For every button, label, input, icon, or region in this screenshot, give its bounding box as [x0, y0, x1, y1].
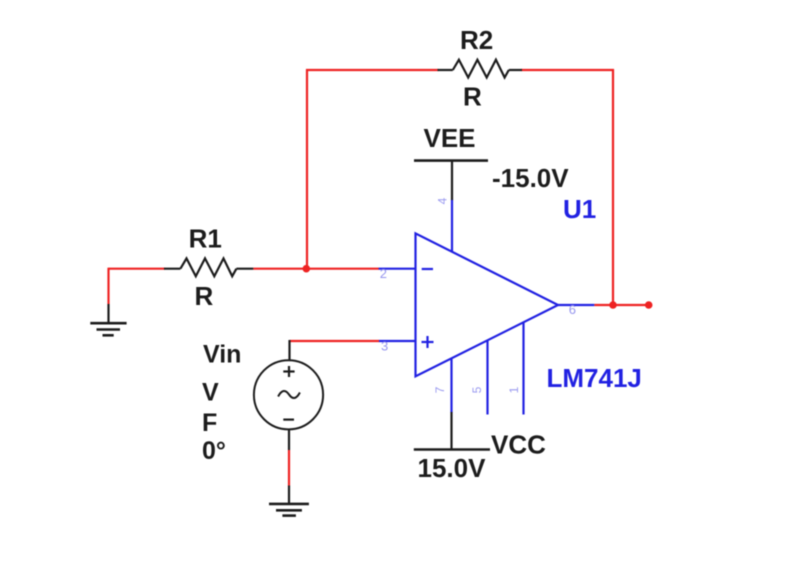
- wire Vin top stem black: [288, 340, 290, 361]
- svg-text:-15.0V: -15.0V: [492, 163, 569, 193]
- wire feedback left vertical: [306, 69, 308, 269]
- wire output red: [594, 304, 648, 306]
- svg-text:V: V: [202, 379, 219, 407]
- svg-text:7: 7: [433, 386, 447, 393]
- node junction dot at output/feedback: [609, 301, 617, 309]
- VEE stem wire: [451, 161, 453, 200]
- svg-text:15.0V: 15.0V: [418, 453, 487, 483]
- op-amp plus input marker: [422, 336, 434, 348]
- ground (below Vin): [269, 504, 309, 516]
- source minus marker: [283, 419, 294, 421]
- svg-text:0°: 0°: [202, 437, 226, 465]
- wire pin3 red from Vin: [290, 340, 380, 342]
- resistor R2: [438, 60, 523, 78]
- wire Vin bottom red: [288, 450, 290, 486]
- svg-text:4: 4: [436, 197, 450, 204]
- pin 4 wire: [451, 200, 453, 253]
- pin 3 stub: [379, 340, 416, 342]
- svg-text:R: R: [463, 82, 482, 112]
- svg-text:Vin: Vin: [203, 341, 241, 369]
- wire feedback top-left red segment: [306, 69, 439, 71]
- svg-text:6: 6: [569, 302, 576, 317]
- wire Vin bottom stem black: [288, 430, 290, 451]
- source sine wave: [278, 391, 300, 398]
- resistor R1: [164, 258, 253, 276]
- wire R1 left red: [109, 268, 166, 270]
- VCC stem wire: [450, 412, 452, 450]
- pin 5 wire: [486, 340, 488, 414]
- node junction dot at R1/feedback: [303, 265, 311, 273]
- svg-text:F: F: [202, 409, 217, 437]
- svg-text:VEE: VEE: [424, 123, 476, 153]
- wire left ground red vertical: [107, 268, 109, 304]
- wire Vin ground lead black: [288, 486, 290, 504]
- VCC supply bar: [414, 448, 490, 451]
- svg-text:5: 5: [470, 386, 484, 393]
- source Vin circle: [254, 360, 323, 429]
- source plus marker: [283, 366, 294, 377]
- pin 7 wire: [450, 358, 452, 412]
- svg-text:1: 1: [507, 386, 521, 393]
- svg-text:LM741J: LM741J: [547, 363, 642, 393]
- svg-text:U1: U1: [563, 194, 596, 224]
- wire feedback top-right red segment: [521, 69, 614, 71]
- svg-text:VCC: VCC: [491, 430, 546, 460]
- svg-text:2: 2: [380, 266, 387, 281]
- VEE supply bar: [414, 159, 488, 162]
- svg-text:3: 3: [381, 339, 388, 354]
- wire feedback right vertical: [612, 69, 614, 305]
- pin 1 wire: [522, 322, 524, 414]
- svg-text:R: R: [195, 281, 214, 311]
- ground (left, at R1 input): [90, 304, 126, 335]
- op-amp U1 triangle: [416, 233, 559, 376]
- op-amp minus input marker: [422, 268, 433, 270]
- pin 6 output stub: [558, 304, 594, 306]
- node terminal dot output: [645, 301, 653, 309]
- pin 2 stub: [379, 268, 416, 270]
- svg-text:R1: R1: [189, 224, 222, 254]
- wire R1 output to op-amp pin2 (red): [253, 268, 379, 270]
- svg-text:R2: R2: [460, 25, 493, 55]
